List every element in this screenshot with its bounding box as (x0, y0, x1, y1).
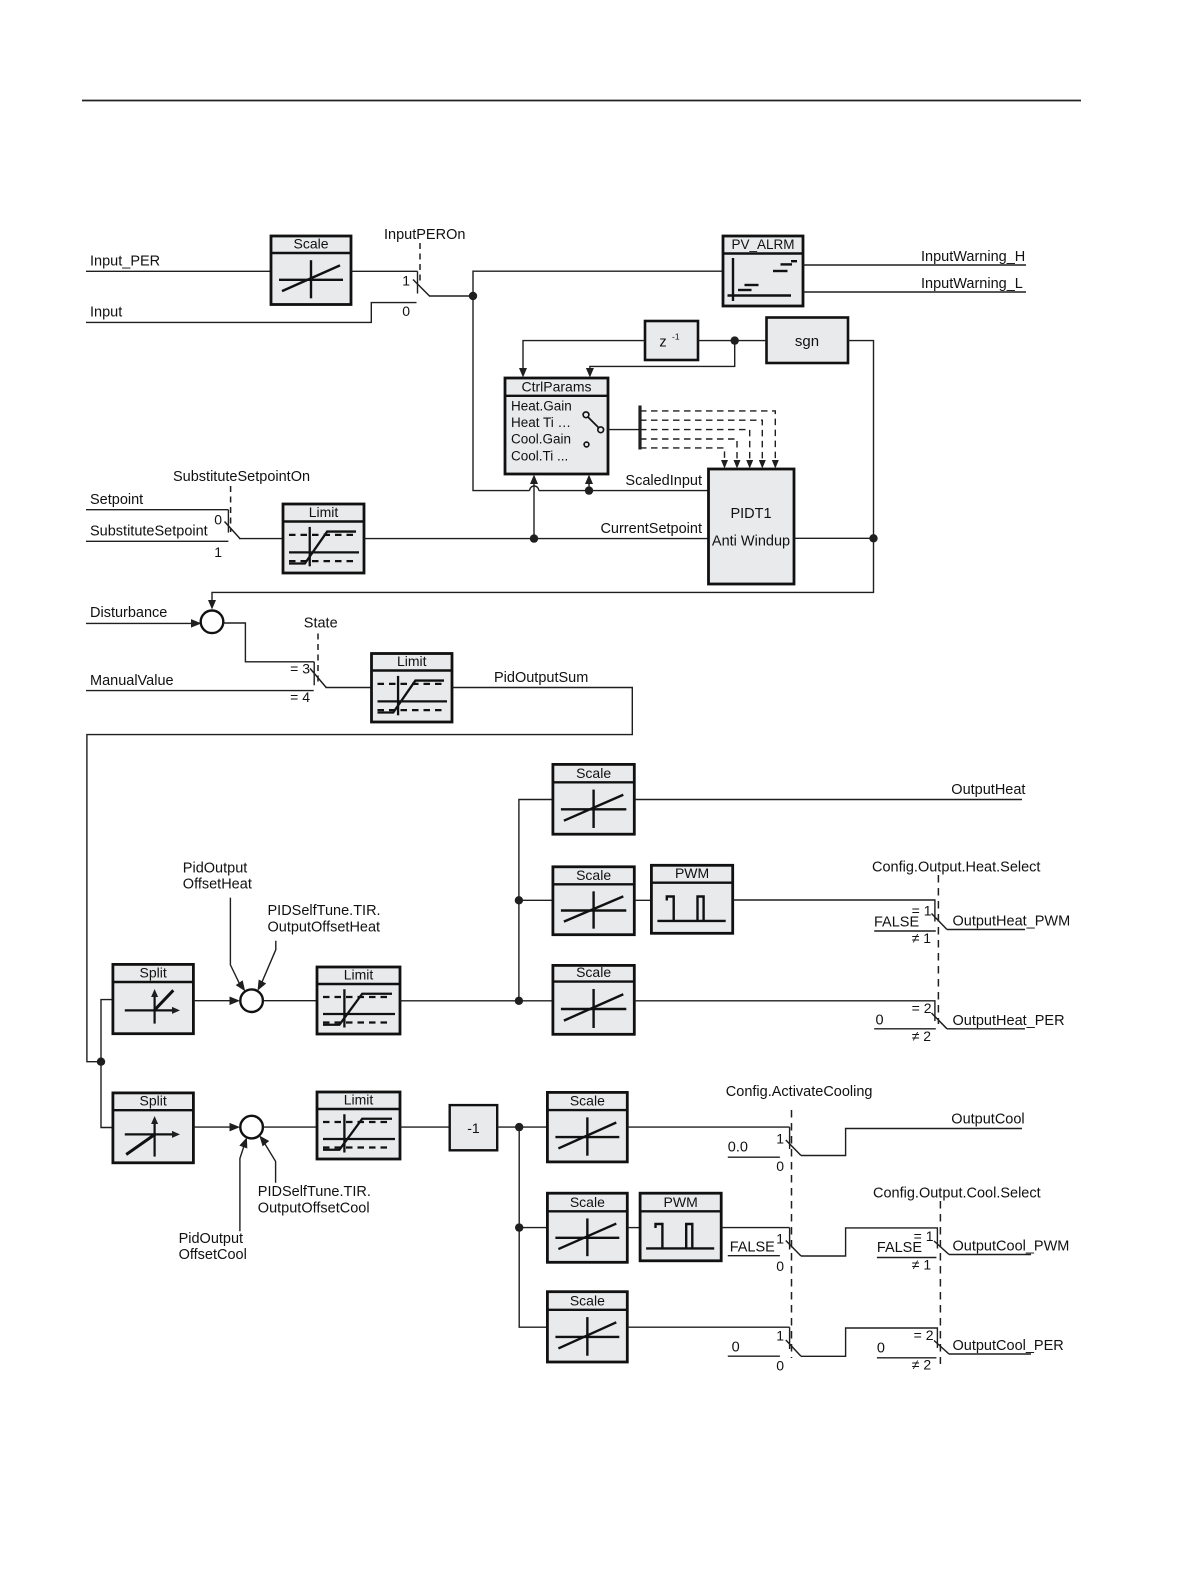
wire OutputHeat_PWM (947, 929, 1025, 931)
wire CurrentSetpoint (364, 538, 708, 540)
arrow into CtrlParams top left (519, 368, 527, 378)
top horizontal rule (82, 100, 1081, 102)
node SubstituteSetpointOn label (173, 469, 310, 485)
node Config.Output.Cool.Select label (873, 1186, 1041, 1202)
svg-text:Config.Output.Heat.Select: Config.Output.Heat.Select (872, 860, 1040, 876)
node G junction (515, 997, 523, 1005)
wire annotation arrow OffsetCool (239, 1136, 251, 1232)
svg-text:z: z (659, 335, 666, 351)
svg-text:PIDSelfTune.TIR.: PIDSelfTune.TIR. (258, 1184, 371, 1200)
switch S1 InputPEROn (402, 271, 429, 319)
wire dashed param 5 (640, 448, 728, 469)
svg-text:1: 1 (776, 1131, 784, 1147)
svg-text:1: 1 (776, 1328, 784, 1344)
svg-text:Setpoint: Setpoint (90, 492, 143, 508)
wire feedback down and left (212, 538, 874, 600)
svg-text:OutputCool_PER: OutputCool_PER (953, 1338, 1064, 1354)
svg-text:≠ 1: ≠ 1 (912, 930, 932, 946)
arrow into CtrlParams top right (586, 368, 594, 378)
wire SubstituteSetpointOn dashed control (230, 486, 232, 532)
wire InputWarning_L (803, 291, 1026, 293)
block Split (heat) U9 (113, 964, 193, 1033)
wire ManualValue (86, 690, 314, 692)
svg-text:ScaledInput: ScaledInput (625, 473, 702, 489)
svg-text:0: 0 (776, 1258, 784, 1274)
node 0 label (heat PER) (876, 1013, 884, 1029)
node PidOutput OffsetHeat label (183, 860, 252, 892)
svg-text:≠ 2: ≠ 2 (912, 1357, 932, 1373)
block Limit (heat) U10 (317, 967, 400, 1035)
svg-text:Config.ActivateCooling: Config.ActivateCooling (726, 1084, 873, 1100)
block Scale (heat 2) U12 (553, 867, 634, 935)
node OutputHeat label (951, 782, 1025, 798)
svg-text:Scale: Scale (576, 765, 611, 781)
node OutputCool label (951, 1111, 1024, 1127)
wire CtrlParams out to bus bar (608, 429, 640, 431)
wire Heat.Select dashed control (937, 875, 939, 1024)
block -1 gain U17 (450, 1105, 498, 1150)
svg-text:Limit: Limit (397, 653, 427, 669)
svg-text:sgn: sgn (795, 333, 819, 350)
svg-text:PidOutputSum: PidOutputSum (494, 670, 588, 686)
wire dashed param 4 (640, 439, 741, 469)
svg-text:InputPEROn: InputPEROn (384, 227, 465, 243)
wire PWM cool out to switch (721, 1227, 789, 1229)
svg-text:ManualValue: ManualValue (90, 673, 174, 689)
block Scale (cool 2) U19 (547, 1193, 627, 1262)
svg-text:PidOutput: PidOutput (183, 860, 248, 876)
wire -1 out (497, 1126, 547, 1128)
wire to heat scale2 (519, 899, 553, 901)
node InputWarning_H label (921, 249, 1025, 265)
block z-1 U3 (645, 321, 698, 360)
svg-text:Split: Split (140, 1093, 167, 1109)
node SubstituteSetpoint label (90, 524, 208, 540)
block CtrlParams U5 (505, 378, 608, 474)
node PidOutputSum label (494, 670, 588, 686)
svg-text:OutputOffsetHeat: OutputOffsetHeat (268, 919, 381, 935)
svg-text:1: 1 (402, 273, 410, 289)
svg-text:1: 1 (776, 1231, 784, 1247)
svg-text:Heat.Gain: Heat.Gain (511, 399, 572, 414)
wire dashed param 3 (640, 430, 753, 469)
wire FALSE input (874, 930, 936, 932)
svg-text:= 4: = 4 (290, 689, 310, 705)
switch S8 OutputCool_PWM (914, 1228, 949, 1255)
wire heat branch vertical (519, 800, 553, 1001)
svg-text:CtrlParams: CtrlParams (521, 378, 591, 394)
wire FALSE input cool select (877, 1257, 937, 1259)
svg-text:0: 0 (732, 1340, 740, 1356)
svg-text:= 2: = 2 (914, 1327, 934, 1343)
node OutputCool_PER label (953, 1338, 1064, 1354)
switch S4 OutputHeat_PWM (912, 902, 947, 929)
node OutputCool_PWM label (953, 1238, 1070, 1254)
wire dashed param 1 (640, 411, 779, 469)
wire Limit cool out to -1 (400, 1126, 450, 1128)
svg-text:Anti Windup: Anti Windup (712, 534, 790, 550)
svg-text:-1: -1 (672, 332, 680, 342)
svg-text:OffsetHeat: OffsetHeat (183, 876, 252, 892)
block Limit (setpoint) U6 (283, 504, 364, 573)
svg-text:Limit: Limit (344, 967, 374, 983)
wire z-1 out to CtrlParams top (523, 341, 645, 370)
svg-text:Scale: Scale (570, 1093, 605, 1109)
svg-text:0.0: 0.0 (728, 1140, 748, 1156)
svg-text:FALSE: FALSE (874, 915, 919, 931)
svg-text:= 3: = 3 (290, 660, 310, 676)
wire sum3 to Limit cool (263, 1126, 317, 1128)
node OutputHeat_PER label (953, 1013, 1065, 1029)
wire switch out to Limit (326, 687, 372, 689)
wire SubstituteSetpoint (86, 540, 228, 542)
wire 0 input cool select (877, 1357, 937, 1359)
block PV_ALRM U2 (723, 236, 803, 306)
node FALSE label (heat PWM) (874, 915, 919, 931)
wire scale2 to PWM (634, 899, 651, 901)
switch S10 OutputCool_PER (914, 1327, 949, 1354)
node C junction (530, 534, 538, 542)
wire dot to sgn (735, 340, 767, 342)
svg-text:InputWarning_L: InputWarning_L (921, 276, 1023, 292)
wire cool PWM route to select (801, 1228, 937, 1256)
svg-text:0: 0 (214, 512, 222, 528)
svg-text:Input: Input (90, 304, 122, 320)
svg-text:OutputCool: OutputCool (951, 1111, 1024, 1127)
wire OutputHeat_PER (947, 1028, 1025, 1030)
svg-text:Disturbance: Disturbance (90, 605, 167, 621)
wire State dashed control (317, 634, 319, 685)
wire OutputCool route (801, 1129, 1022, 1156)
svg-text:Cool.Ti ...: Cool.Ti ... (511, 449, 568, 464)
svg-text:OutputOffsetCool: OutputOffsetCool (258, 1201, 370, 1217)
wire annotation arrow OutputOffsetCool (256, 1133, 276, 1183)
switch S2 SubstituteSetpointOn (214, 510, 240, 560)
wire Split1 out to sum2 (193, 996, 240, 1005)
node FALSE label (cool PWM sw1) (730, 1240, 775, 1256)
svg-text:State: State (304, 616, 338, 632)
wire PWM out to select (733, 900, 935, 922)
wire PIDT1 out (794, 537, 874, 539)
node 0 label (cool select) (877, 1341, 885, 1357)
wire annotation arrow OffsetHeat (230, 898, 248, 994)
wire Input_PER (86, 270, 271, 272)
node F junction (97, 1058, 105, 1066)
svg-text:FALSE: FALSE (877, 1240, 922, 1256)
svg-text:PidOutput: PidOutput (179, 1231, 244, 1247)
wire InputPEROn dashed control (419, 243, 421, 283)
switch S5 OutputHeat_PER (912, 1000, 947, 1029)
wire ActivateCooling dashed control (791, 1110, 793, 1358)
switch S9 ActivateCooling 3 (776, 1327, 801, 1373)
svg-text:0: 0 (776, 1358, 784, 1374)
block Scale (heat 3) U14 (553, 964, 634, 1034)
node 0 label (cool sw1) (732, 1340, 740, 1356)
svg-text:PIDT1: PIDT1 (730, 506, 771, 522)
svg-text:Split: Split (140, 965, 167, 981)
wire OutputCool_PER (949, 1353, 1031, 1355)
node B junction (731, 336, 739, 344)
wire D up to CtrlParams bottom (588, 483, 590, 491)
node OutputHeat_PWM label (953, 913, 1071, 929)
wire switch out to node A (429, 295, 473, 297)
svg-text:Scale: Scale (576, 964, 611, 980)
block Limit (state) U8 (372, 653, 453, 722)
svg-text:PIDSelfTune.TIR.: PIDSelfTune.TIR. (268, 903, 381, 919)
wire Cool.Select dashed control (939, 1201, 941, 1364)
wire Disturbance (86, 619, 202, 628)
svg-text:OutputCool_PWM: OutputCool_PWM (953, 1238, 1070, 1254)
svg-text:≠ 1: ≠ 1 (912, 1257, 932, 1273)
svg-text:Scale: Scale (293, 236, 328, 252)
node A junction (469, 292, 477, 300)
svg-text:Input_PER: Input_PER (90, 253, 160, 269)
wire node A up to PV_ALRM (473, 271, 723, 296)
node not1 label (heat PWM) (912, 930, 932, 946)
node Config.Output.Heat.Select label (872, 860, 1040, 876)
node Config.ActivateCooling label (726, 1084, 873, 1100)
svg-text:0: 0 (776, 1158, 784, 1174)
svg-text:0: 0 (876, 1013, 884, 1029)
wire sgn input from PIDT1 output (848, 341, 874, 539)
svg-text:PWM: PWM (664, 1194, 698, 1210)
block PWM (heat) U13 (651, 865, 732, 933)
svg-text:0: 0 (877, 1341, 885, 1357)
node PIDSelfTune heat label (268, 903, 381, 936)
svg-text:FALSE: FALSE (730, 1240, 775, 1256)
arrow into CtrlParams bottom left (530, 475, 538, 485)
switch S7 ActivateCooling 2 (776, 1228, 801, 1274)
wire Split2 out to sum3 (193, 1123, 240, 1132)
node I junction (515, 1123, 523, 1131)
svg-text:OutputHeat_PER: OutputHeat_PER (953, 1013, 1065, 1029)
wire cool branch vertical (519, 1127, 547, 1327)
wire 0 input (874, 1028, 936, 1030)
node PidOutput OffsetCool label (179, 1231, 247, 1263)
svg-text:Heat Ti …: Heat Ti … (511, 415, 571, 430)
node 0.0 label (728, 1140, 748, 1156)
svg-text:Limit: Limit (309, 504, 339, 520)
svg-text:1: 1 (214, 544, 222, 560)
node Disturbance label (90, 605, 167, 621)
svg-text:-1: -1 (467, 1120, 480, 1136)
svg-text:= 2: = 2 (912, 1000, 932, 1016)
summing junction SJ3 (240, 1116, 263, 1139)
svg-text:OutputHeat_PWM: OutputHeat_PWM (953, 913, 1071, 929)
block Limit (cool) U16 (317, 1092, 400, 1160)
svg-text:Scale: Scale (570, 1194, 605, 1210)
bus bar (638, 406, 641, 450)
block sgn U4 (767, 318, 849, 364)
block PIDT1 U7 (709, 469, 795, 584)
arrow into sum1 top (208, 600, 216, 610)
wire cool scale2 to PWM (627, 1227, 640, 1229)
node Input_PER label (90, 253, 160, 269)
svg-text:PV_ALRM: PV_ALRM (731, 237, 794, 252)
wire to heat scale3 (519, 1000, 553, 1002)
wire Limit heat out (400, 1000, 519, 1002)
svg-text:OffsetCool: OffsetCool (179, 1247, 247, 1263)
wire ScaledInput (473, 296, 708, 491)
block Scale (heat 1) U11 (553, 764, 634, 834)
node State label (304, 616, 338, 632)
wire InputWarning_H (803, 264, 1026, 266)
node not2 label (heat PER) (912, 1028, 932, 1044)
wire FALSE input cool (728, 1255, 780, 1257)
summing junction SJ2 (240, 989, 263, 1012)
svg-text:0: 0 (402, 303, 410, 319)
svg-text:Cool.Gain: Cool.Gain (511, 432, 571, 447)
node InputWarning_L label (921, 276, 1023, 292)
wire dot down to CtrlParams top (590, 341, 735, 370)
node FALSE label (cool PWM sw2) (877, 1240, 922, 1256)
wire sum1 out to state switch (223, 623, 314, 662)
wire dashed param 2 (640, 420, 766, 468)
block Scale (input) U1 (271, 236, 351, 305)
wire dot to z-1 input (698, 340, 735, 342)
svg-text:SubstituteSetpointOn: SubstituteSetpointOn (173, 469, 310, 485)
svg-text:PWM: PWM (675, 865, 709, 881)
wire PidOutputSum route (87, 688, 632, 1062)
switch S3 State (290, 660, 326, 705)
summing junction SJ1 (201, 611, 224, 634)
wire to cool scale2 (519, 1227, 547, 1229)
block Scale (cool 3) U21 (547, 1292, 627, 1362)
wire Input (86, 303, 417, 323)
node E junction (869, 534, 877, 542)
svg-text:Config.Output.Cool.Select: Config.Output.Cool.Select (873, 1186, 1041, 1202)
node not2 label (cool PER) (912, 1357, 932, 1373)
wire OutputCool_PWM (949, 1254, 1031, 1256)
wire C up to CtrlParams bottom (533, 483, 535, 539)
node H junction (515, 896, 523, 904)
wire to Split cool (101, 1062, 113, 1128)
svg-text:Limit: Limit (344, 1092, 374, 1108)
svg-text:Scale: Scale (576, 867, 611, 883)
node not1 label (cool PWM) (912, 1257, 932, 1273)
svg-text:Scale: Scale (570, 1292, 605, 1308)
svg-text:SubstituteSetpoint: SubstituteSetpoint (90, 524, 208, 540)
node Setpoint label (90, 492, 143, 508)
svg-text:InputWarning_H: InputWarning_H (921, 249, 1025, 265)
node InputPEROn label (384, 227, 465, 243)
wire cool scale1 out to switch (627, 1126, 789, 1128)
wire cool PER route to select (801, 1328, 937, 1356)
wire Scale out to switch (351, 270, 418, 272)
wire scale3 out to select (634, 1001, 935, 1021)
wire annotation arrow OutputOffsetHeat (254, 941, 276, 993)
wire cool scale3 out to switch (627, 1326, 789, 1328)
block PWM (cool) U20 (640, 1193, 721, 1261)
switch S6 ActivateCooling 1 (776, 1127, 801, 1174)
block Split (cool) U15 (113, 1093, 193, 1163)
wire 0.0 input (728, 1156, 780, 1158)
wire sum2 to Limit heat (263, 1000, 317, 1002)
node Input label (90, 304, 122, 320)
wire switch out to Limit (239, 538, 283, 540)
block Scale (cool 1) U18 (547, 1092, 627, 1162)
svg-text:CurrentSetpoint: CurrentSetpoint (600, 521, 702, 537)
node ScaledInput label (625, 473, 702, 489)
svg-text:OutputHeat: OutputHeat (951, 782, 1025, 798)
wire 0 input cool (728, 1355, 780, 1357)
node D junction (585, 486, 593, 494)
wire Setpoint (86, 509, 228, 511)
svg-text:≠ 2: ≠ 2 (912, 1028, 932, 1044)
node PIDSelfTune cool label (258, 1184, 371, 1217)
node ManualValue label (90, 673, 174, 689)
wire to Split heat (101, 1000, 113, 1062)
wire OutputHeat (634, 799, 1022, 801)
node CurrentSetpoint label (600, 521, 702, 537)
arrow into CtrlParams bottom right (585, 475, 593, 485)
node J junction (515, 1223, 523, 1231)
